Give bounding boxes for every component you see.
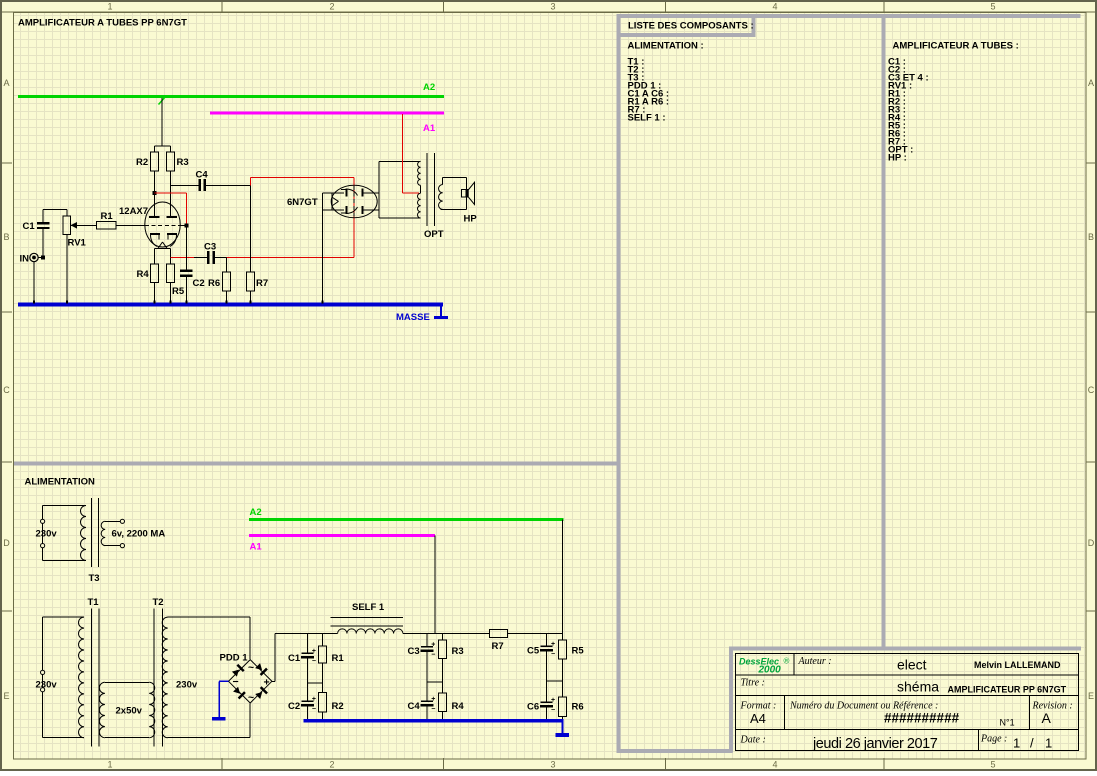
svg-text:+: +: [431, 642, 435, 649]
svg-text:T3: T3: [89, 573, 100, 584]
svg-text:RV1: RV1: [68, 238, 87, 249]
wire OPT secondary to HP: [440, 178, 466, 210]
net MASSE blue bus: [18, 303, 443, 307]
svg-text:1: 1: [1013, 736, 1020, 751]
panel divider horizontal y648 title block top: [729, 647, 1081, 651]
transformer T1 primary loop: [43, 617, 84, 738]
svg-text:C: C: [1088, 385, 1095, 395]
red wire anode feedback to grid2: [155, 193, 187, 225]
wire R5 to masse: [170, 283, 172, 304]
svg-text:3: 3: [550, 760, 555, 770]
wire C6 alim bottom lead: [546, 708, 548, 720]
field label Date: [740, 735, 766, 746]
logo DessElec 2000: [739, 657, 790, 676]
svg-text:A: A: [1042, 710, 1052, 726]
wire A1 drop to rail: [434, 536, 436, 634]
wire mid node col3: [547, 680, 563, 682]
label HP: [464, 214, 478, 225]
svg-text:E: E: [3, 691, 9, 701]
diode PDD1 bottom-right: [255, 686, 268, 699]
ruler tick marks bottom: [222, 758, 885, 769]
tube U2 6N7GT envelope: [331, 185, 377, 218]
diode PDD1 top-left: [231, 664, 244, 677]
wire R4 alim bottom lead: [442, 712, 444, 720]
label C6 alim: [527, 702, 539, 713]
svg-text:C2: C2: [288, 701, 300, 712]
bridge mark minus: [233, 676, 239, 688]
wire grid2 node to C2 to masse: [186, 227, 188, 303]
wire B+ rail left: [275, 633, 338, 635]
label 230v T1: [36, 680, 58, 691]
label MASSE: [396, 312, 430, 323]
label C1: [23, 221, 36, 232]
6N7GT upper anode plate: [362, 189, 379, 197]
svg-text:C3: C3: [408, 646, 420, 657]
svg-text:−: −: [551, 651, 555, 658]
svg-text:Date :: Date :: [740, 735, 766, 746]
red wire C3 to 6N7GT grid return: [227, 256, 355, 258]
12AX7 right anode plate: [167, 216, 178, 218]
label C3: [204, 242, 216, 253]
net A2 top green bus: [18, 95, 444, 98]
net A1 top magenta bus: [210, 112, 444, 115]
bridge mark plus: [264, 677, 270, 689]
top ruler band line: [2, 12, 1095, 13]
svg-text:ALIMENTATION :: ALIMENTATION :: [628, 41, 704, 52]
wire R5 alim bottom lead: [562, 659, 564, 697]
svg-text:+: +: [312, 696, 316, 703]
svg-text:R6: R6: [208, 278, 220, 289]
transformer T3 primary winding: [81, 506, 87, 561]
tube U1 12AX7 envelope: [145, 202, 180, 247]
label 12AX7: [119, 206, 148, 217]
svg-text:Auteur :: Auteur :: [798, 656, 832, 667]
terminal T3 primary bottom: [41, 544, 45, 548]
svg-text:R5: R5: [172, 286, 185, 297]
svg-text:12AX7: 12AX7: [119, 206, 148, 217]
wire C1 bottom to IN node: [42, 229, 44, 257]
liste box gray outline: [617, 14, 756, 37]
field label Page: [980, 734, 1007, 745]
svg-text:C5: C5: [527, 646, 540, 657]
svg-text:1: 1: [107, 760, 112, 770]
svg-text:N°1: N°1: [1000, 718, 1015, 728]
panel divider horizontal top right panels: [617, 14, 1081, 18]
label A2 alim: [250, 507, 262, 518]
ruler tick marks right: [1086, 163, 1096, 612]
ground symbol alim right: [556, 722, 570, 735]
svg-text:R2: R2: [332, 701, 344, 712]
ground symbol masse: [434, 306, 448, 318]
12AX7 left grid electrode: [150, 233, 160, 247]
ruler tick marks left: [2, 163, 12, 612]
svg-text:HP :: HP :: [888, 153, 907, 164]
label R1 alim: [332, 653, 345, 664]
wire mid node col2: [427, 681, 443, 683]
net A1 alim magenta bus: [249, 534, 435, 537]
svg-text:A: A: [1088, 78, 1094, 88]
label R6: [208, 278, 220, 289]
diode PDD1 bottom-left: [232, 686, 245, 699]
svg-text:6N7GT: 6N7GT: [287, 197, 318, 208]
svg-text:R7: R7: [492, 641, 504, 652]
svg-text:A1: A1: [423, 123, 436, 134]
panel divider horizontal y751: [617, 749, 733, 753]
value auteur elect: [897, 657, 927, 673]
svg-text:R4: R4: [137, 269, 150, 280]
label R1: [101, 211, 114, 222]
svg-text:AMPLIFICATEUR PP 6N7GT: AMPLIFICATEUR PP 6N7GT: [948, 685, 1067, 695]
label OPT: [424, 229, 444, 240]
capacitor C1 alim: [301, 648, 316, 665]
svg-text:C2: C2: [193, 278, 205, 289]
wire C5 alim top lead: [546, 634, 548, 646]
svg-text:~: ~: [248, 662, 254, 674]
transformer T1 core: [92, 609, 99, 747]
label 230v T3: [36, 529, 58, 540]
winding 2x50v link loop: [105, 682, 149, 737]
svg-text:ALIMENTATION: ALIMENTATION: [25, 477, 95, 488]
svg-text:4: 4: [772, 2, 777, 12]
terminal T3 primary top: [41, 519, 45, 523]
svg-text:−: −: [312, 658, 316, 665]
bridge mark ~ top: [248, 662, 254, 674]
bridge mark ~ bottom: [248, 692, 254, 704]
ruler letters left: [3, 78, 10, 701]
ruler letters right: [1088, 78, 1095, 701]
label RV1: [68, 238, 87, 249]
field label Numero du Document ou Reference: [789, 701, 938, 712]
svg-text:jeudi 26 janvier 2017: jeudi 26 janvier 2017: [812, 736, 938, 752]
junction dot grid2 node: [185, 223, 189, 227]
label R4: [137, 269, 150, 280]
capacitor C3: [207, 251, 215, 264]
resistor R5 alim: [559, 640, 567, 659]
label R3 alim: [452, 646, 464, 657]
label C3 alim: [408, 646, 420, 657]
wire A2 to R2 R3 tops: [155, 98, 171, 152]
wire A2 drop to R5 column: [562, 520, 564, 640]
liste des composants heading: [628, 21, 754, 32]
wire R1 alim leads: [322, 634, 324, 693]
svg-text:230v: 230v: [36, 680, 58, 691]
junction dot node R2 anode: [153, 191, 157, 195]
value N1: [1000, 718, 1015, 728]
wire IN down to masse: [33, 262, 35, 303]
svg-text:R2: R2: [136, 157, 148, 168]
svg-text:C6: C6: [527, 702, 539, 713]
blue wire bridge minus to ground: [219, 681, 228, 717]
svg-text:T2: T2: [153, 597, 164, 608]
transformer OPT core: [427, 153, 434, 226]
capacitor C5 alim: [540, 641, 555, 658]
label R5: [172, 286, 185, 297]
svg-text:Page :: Page :: [980, 734, 1007, 745]
wire C3 right lead: [215, 256, 227, 258]
ruler numbers bottom: [107, 760, 995, 770]
wire bridge plus to rail: [272, 634, 275, 682]
blue ground bus alim: [304, 719, 564, 723]
field label Revision: [1032, 701, 1073, 712]
resistor R7: [247, 272, 255, 291]
svg-text:OPT: OPT: [424, 229, 444, 240]
wire R4 to masse: [154, 283, 156, 304]
value Melvin LALLEMAND: [974, 660, 1061, 670]
svg-text:2: 2: [329, 2, 334, 12]
wire R1 left to RV1 wiper arrow: [71, 222, 97, 229]
wire R2 bottom to left anode: [154, 171, 156, 216]
transformer T2 secondary winding: [162, 617, 167, 738]
svg-text:+: +: [431, 696, 435, 703]
svg-text:R1: R1: [101, 211, 114, 222]
label IN: [20, 254, 30, 265]
svg-text:1: 1: [1045, 736, 1052, 751]
wire R6 top: [226, 257, 228, 272]
svg-text:C4: C4: [196, 170, 209, 181]
wire C4 node down to R7: [250, 186, 252, 273]
wire tube right to grid2 dot: [180, 224, 187, 226]
wire R6 bottom to masse: [226, 291, 228, 303]
label R6 alim: [572, 702, 584, 713]
field label Titre: [741, 678, 765, 689]
svg-text:2000: 2000: [758, 665, 782, 676]
resistor R4: [151, 264, 159, 283]
transformer T3 primary loop: [43, 506, 86, 561]
title block row lines: [736, 675, 1079, 730]
label C2: [193, 278, 205, 289]
label R4 alim: [452, 701, 465, 712]
svg-text:R4: R4: [452, 701, 465, 712]
svg-text:2x50v: 2x50v: [116, 706, 143, 717]
svg-text:Titre :: Titre :: [741, 678, 765, 689]
wire OPT primary left bus: [379, 161, 421, 218]
label C2 alim: [288, 701, 300, 712]
svg-text:+: +: [264, 677, 270, 689]
svg-text:Melvin LALLEMAND: Melvin LALLEMAND: [974, 660, 1061, 670]
wire B+ rail middle: [403, 633, 489, 635]
inductor SELF 1 winding: [338, 629, 403, 634]
6N7GT cathode base and cone: [332, 193, 339, 210]
svg-text:A1: A1: [250, 542, 263, 553]
resistor R3: [167, 152, 175, 171]
title block column lines: [785, 654, 1030, 751]
label A2 top: [423, 82, 435, 93]
svg-text:PDD 1: PDD 1: [220, 653, 249, 664]
label T2: [153, 597, 164, 608]
terminal T3 secondary bottom: [120, 544, 124, 548]
value format A4: [750, 711, 766, 726]
svg-text:C1: C1: [23, 221, 36, 232]
value page 1 / 1: [1013, 736, 1052, 751]
wire mid node col1: [307, 682, 322, 684]
svg-text:elect: elect: [897, 657, 927, 673]
wire C4 right to R7 node: [206, 185, 251, 187]
svg-text:R7: R7: [256, 278, 268, 289]
junction dot IN node: [41, 256, 45, 260]
title block outer frame: [736, 654, 1079, 751]
label C5 alim: [527, 646, 540, 657]
value revision A: [1042, 710, 1052, 726]
svg-text:A2: A2: [250, 507, 262, 518]
svg-text:A4: A4: [750, 711, 766, 726]
panel divider horizontal y463 left sections: [14, 462, 617, 466]
svg-text:−: −: [233, 676, 239, 688]
resistor R1: [97, 222, 117, 230]
svg-text:T1: T1: [88, 597, 100, 608]
wire T2 top to bridge: [168, 617, 250, 659]
svg-text:SELF 1 :: SELF 1 :: [628, 113, 666, 124]
wire grid1 to R1 right: [116, 224, 145, 226]
transformer T3 secondary winding: [101, 521, 105, 545]
12AX7 right grid electrode: [167, 233, 177, 247]
resistor R4 alim: [439, 693, 447, 712]
svg-text:6v, 2200 MA: 6v, 2200 MA: [112, 529, 166, 540]
wire R6 alim bottom lead: [562, 716, 564, 719]
svg-text:+: +: [312, 648, 316, 655]
label A1 top: [423, 123, 436, 134]
svg-text:B: B: [1088, 232, 1094, 242]
svg-text:−: −: [431, 706, 435, 713]
wire C1 alim top lead: [306, 634, 308, 653]
svg-text:1: 1: [107, 2, 112, 12]
label R2 alim: [332, 701, 344, 712]
label 6v 2200 MA: [112, 529, 166, 540]
svg-text:~: ~: [248, 692, 254, 704]
label SELF 1: [352, 602, 385, 613]
wire T2 bottom to bridge: [168, 704, 250, 738]
value date jeudi 26 janvier 2017: [812, 736, 938, 752]
field label Format: [740, 701, 777, 712]
alimentation list heading: [628, 41, 704, 52]
transformer OPT primary winding: [418, 161, 421, 218]
svg-text:shéma: shéma: [897, 679, 939, 695]
svg-text:+: +: [551, 697, 555, 704]
wire 6N7GT grids to left bracket: [323, 193, 345, 210]
terminal T1 primary top: [41, 670, 45, 674]
resistor R3 alim: [439, 640, 447, 658]
svg-text:Revision :: Revision :: [1032, 701, 1073, 712]
svg-text:Format :: Format :: [740, 701, 777, 712]
label R7: [256, 278, 268, 289]
panel divider vertical x731 title block left: [729, 647, 733, 753]
svg-text:+: +: [551, 641, 555, 648]
label R7 alim: [492, 641, 504, 652]
svg-text:C: C: [3, 385, 10, 395]
6N7GT lower grid electrode: [341, 206, 358, 214]
capacitor C4: [199, 179, 207, 191]
resistor R6: [223, 272, 231, 291]
alimentation list items: [628, 57, 670, 124]
wire C5 alim bottom lead: [546, 652, 548, 702]
label T3: [89, 573, 100, 584]
bridge rectifier PDD1 diamond: [229, 660, 272, 703]
value titre shema: [897, 679, 939, 695]
wire C3 alim top lead: [426, 634, 428, 647]
svg-text:B: B: [3, 232, 9, 242]
red wire cathode to C3: [171, 256, 195, 258]
svg-text:R3: R3: [177, 157, 189, 168]
svg-text:230v: 230v: [176, 680, 198, 691]
capacitor C2: [180, 270, 193, 278]
12AX7 left anode plate: [149, 216, 160, 218]
net A2 alim green bus: [249, 518, 564, 521]
winding 2x50v left coil: [99, 682, 105, 737]
wire C3 left lead: [194, 256, 207, 258]
inductor SELF 1 core bars: [330, 617, 403, 626]
svg-text:5: 5: [990, 2, 995, 12]
terminal T1 primary bottom: [41, 688, 45, 692]
wire R3 alim leads: [442, 634, 444, 694]
svg-text:−: −: [312, 706, 316, 713]
svg-text:D: D: [3, 538, 10, 548]
svg-text:E: E: [1088, 691, 1094, 701]
panel divider vertical x617: [617, 14, 621, 753]
red wire A1 to OPT center tap: [402, 114, 419, 193]
svg-text:HP: HP: [464, 214, 478, 225]
value document number hashes: [884, 711, 960, 726]
winding 2x50v right coil: [149, 682, 155, 737]
capacitor C1: [37, 222, 50, 229]
wire RV1 bottom to masse: [66, 235, 68, 304]
masse junction ticks: [33, 301, 324, 304]
svg-text:/: /: [1030, 736, 1034, 751]
label C4: [196, 170, 209, 181]
svg-text:3: 3: [550, 2, 555, 12]
capacitor C3 alim: [420, 642, 435, 659]
wire C2 alim bottom lead: [306, 707, 308, 720]
svg-text:230v: 230v: [36, 529, 58, 540]
svg-text:SELF 1: SELF 1: [352, 602, 385, 613]
svg-text:−: −: [551, 707, 555, 714]
ground symbol bridge: [212, 717, 226, 721]
wire cathode left to R4: [154, 248, 156, 264]
svg-text:C1: C1: [288, 653, 301, 664]
svg-text:2: 2: [329, 760, 334, 770]
svg-text:D: D: [1088, 538, 1095, 548]
label R2: [136, 157, 148, 168]
6N7GT lower anode plate: [362, 206, 379, 214]
section title AMPLIFICATEUR A TUBES PP 6N7GT: [18, 18, 187, 29]
field label Auteur: [798, 656, 832, 667]
label R5 alim: [572, 646, 585, 657]
svg-text:A: A: [3, 78, 9, 88]
resistor R2 alim: [319, 693, 327, 713]
capacitor C4 alim: [420, 696, 435, 713]
wire C3 alim bottom lead: [426, 652, 428, 700]
svg-text:LISTE DES COMPOSANTS :: LISTE DES COMPOSANTS :: [628, 21, 754, 32]
terminal T3 secondary top: [120, 519, 124, 523]
speaker HP: [461, 182, 474, 204]
capacitor C6 alim: [540, 697, 555, 714]
svg-text:A2: A2: [423, 82, 435, 93]
resistor R1 alim: [319, 646, 327, 663]
label 230v T2: [176, 680, 198, 691]
potentiometer RV1: [63, 216, 71, 235]
12AX7 grid dashed line: [145, 224, 185, 226]
svg-text:C3: C3: [204, 242, 216, 253]
label T1: [88, 597, 100, 608]
6N7GT upper grid electrode: [341, 189, 358, 197]
svg-text:4: 4: [772, 760, 777, 770]
label 6N7GT: [287, 197, 318, 208]
svg-text:R1: R1: [332, 653, 345, 664]
ruler tick marks top: [222, 2, 885, 12]
red wire C4 node to 6N7GT grid top: [251, 177, 355, 257]
wire R3 bottom to right anode and C4 tap: [171, 171, 199, 216]
12AX7 cathode base and cone: [155, 242, 171, 248]
connector IN jack: [30, 253, 41, 261]
section title ALIMENTATION: [25, 477, 95, 488]
